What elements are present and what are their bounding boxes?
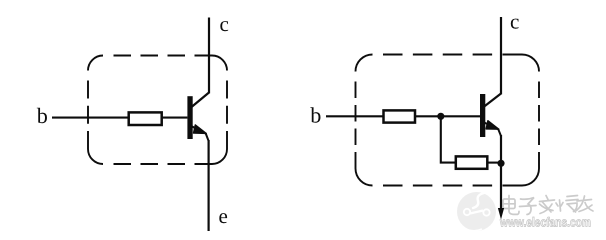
transistor V2 emitter diagonal with arrow (right) <box>484 121 501 136</box>
wire: b lead to resistor R1 (right) <box>326 115 384 117</box>
wire: b lead to resistor R (left) <box>52 117 128 119</box>
node B junction dot (emitter node) <box>497 160 504 167</box>
transistor V1 collector diagonal (left) <box>192 93 210 108</box>
dashed package outline (left) <box>88 56 227 165</box>
wire: emitter lead down through package edge (right) <box>500 135 502 210</box>
watermark text 电子发烧友 (approximated strokes) <box>503 196 593 215</box>
wire: resistor R2 to emitter node B <box>487 162 501 164</box>
wire: collector lead up to c (right) <box>500 17 502 94</box>
svg-text:www.elecfans.com: www.elecfans.com <box>499 214 591 229</box>
wire: node A down to resistor R2 (right) <box>441 116 456 162</box>
terminal label e (left) <box>219 213 227 223</box>
transistor V2 base bar (right, NPN) <box>480 94 485 137</box>
wire: resistor R to base of transistor (left) <box>162 117 188 119</box>
terminal label c (left) <box>220 21 228 31</box>
terminal label b (right) <box>310 107 320 122</box>
wire: collector lead up to c (left) <box>208 18 210 94</box>
wire: resistor R1 to base of transistor (right) <box>415 115 480 117</box>
dashed package outline (right) <box>356 55 540 186</box>
node A junction dot (base node) <box>437 113 444 120</box>
transistor V1 emitter diagonal with arrow (left) <box>192 125 209 141</box>
resistor R2 (right, base-emitter resistor) <box>456 156 488 168</box>
terminal label c (right) <box>511 19 519 29</box>
resistor R1 (right, series base resistor) <box>384 110 416 122</box>
watermark logo (elecfans) <box>457 192 496 231</box>
resistor R (left, base resistor) <box>129 112 162 125</box>
wire: emitter lead down to e (left) <box>208 140 210 231</box>
transistor V2 collector diagonal (right) <box>484 94 501 107</box>
arrowhead at end of emitter lead (right) <box>498 208 504 220</box>
transistor V1 base bar (left, NPN) <box>187 96 192 139</box>
terminal label b (left) <box>37 108 47 123</box>
